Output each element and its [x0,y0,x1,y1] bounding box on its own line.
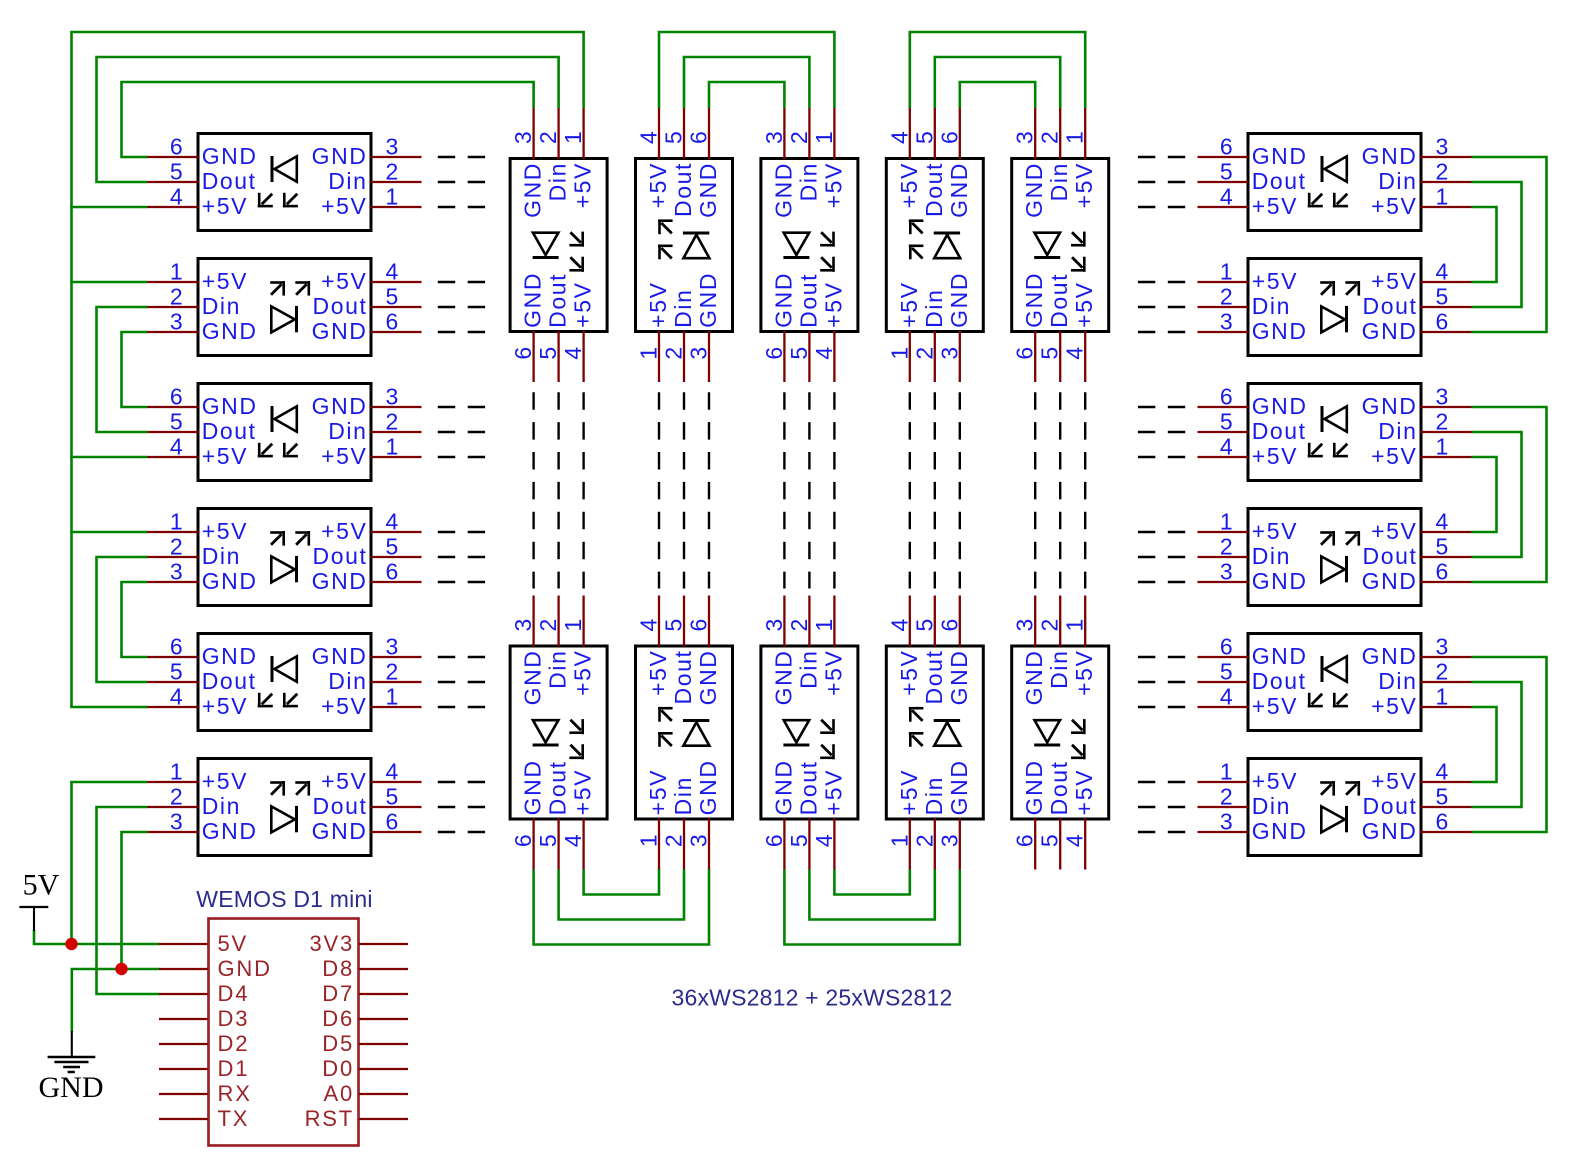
wire +5V branches to left box pins [70,207,147,707]
svg-text:D3: D3 [218,1006,250,1031]
svg-text:D5: D5 [322,1031,354,1056]
WS2812 LED D5 (left column, boxA) [148,634,422,731]
wire right pair 1: +5V pin1-pin4 [1472,207,1497,282]
svg-text:D2: D2 [218,1031,250,1056]
WS2812 LED D3 (left column, boxA) [148,384,422,481]
WEMOS pin D3 (left) [159,1006,249,1031]
WS2812 LED D11 (middle top, col 5, boxA rotated) [1012,108,1109,382]
WS2812 LED D13 (middle bottom, col 2, boxB rotated) [636,596,733,870]
svg-text:RST: RST [305,1106,354,1131]
WS2812 LED D20 (right column, boxB) [1198,509,1472,606]
wire 5V symbol to WEMOS 5V pin [34,930,159,944]
svg-text:D7: D7 [322,981,354,1006]
svg-text:D8: D8 [322,956,354,981]
WS2812 LED D19 (right column, boxA) [1198,384,1472,481]
WEMOS pin D2 (left) [159,1031,249,1056]
WS2812 LED D1 (left column, boxA) [148,134,422,231]
WS2812 LED D2 (left column, boxB) [148,259,422,356]
WS2812 LED D12 (middle bottom, col 1, boxA rotated) [510,596,607,870]
svg-text:D4: D4 [218,981,250,1006]
wire GND: D1 GND up to col1 pin3 (GND) [122,82,534,157]
WS2812 LED D21 (right column, boxA) [1198,634,1472,731]
WS2812 LED D9 (middle top, col 3, boxA rotated) [761,108,858,382]
wire U-loop top inner (D10/D11) [960,82,1035,108]
WEMOS pin TX (left) [159,1106,249,1131]
wire right pair 3: data pin2-pin5 [1472,682,1522,807]
wire data: D6 Din from WEMOS D4 pin [97,807,160,994]
WEMOS D1 mini U1 body [209,919,359,1146]
wire right pair 2: data pin2-pin5 [1472,432,1522,557]
WS2812 LED D14 (middle bottom, col 3, boxA rotated) [761,596,858,870]
WEMOS pin D5 (right) [322,1031,408,1056]
wire U-loop bottom inner (D12/D13) [584,870,659,895]
WEMOS pin D6 (right) [322,1006,408,1031]
WEMOS pin RX (left) [159,1081,252,1106]
WEMOS pin RST (right) [305,1106,408,1131]
junction dot +5V net [65,938,77,950]
WS2812 LED D15 (middle bottom, col 4, boxB rotated) [886,596,983,870]
WEMOS pin D8 (right) [322,956,408,981]
wire U-loop bottom middle (D12/D13) [559,870,684,920]
wire right pair 3: +5V pin1-pin4 [1472,707,1497,782]
wire right pair 1: data pin2-pin5 [1472,182,1522,307]
wire U-loop top middle (D10/D11) [935,57,1060,108]
svg-text:3V3: 3V3 [309,931,354,956]
WS2812 LED D10 (middle top, col 4, boxB rotated) [886,108,983,382]
WS2812 LED D8 (middle top, col 2, boxB rotated) [636,108,733,382]
wire U-loop bottom outer (D14/D15) [784,870,959,945]
wire GND: D6 GND down to GND junction [122,832,148,969]
svg-text:D1: D1 [218,1056,250,1081]
svg-text:A0: A0 [323,1081,354,1106]
WEMOS pin A0 (right) [323,1081,408,1106]
GND ground symbol [39,1031,104,1104]
wire right pair 2: +5V pin1-pin4 [1472,457,1497,532]
dashed continuation, left of right column boxes [1138,157,1186,832]
wire GND: D4 GND to D5 GND [122,582,148,657]
WEMOS pin D0 (right) [322,1056,408,1081]
svg-text:5V: 5V [218,931,249,956]
wire U-loop bottom outer (D12/D13) [534,870,709,945]
junction dot GND net [115,963,127,975]
WS2812 LED D22 (right column, boxB) [1198,759,1472,856]
svg-text:WEMOS D1 mini: WEMOS D1 mini [196,886,372,912]
wire GND row to GND symbol [72,969,159,1032]
WEMOS pin D7 (right) [322,981,408,1006]
wire data: D2 Din to D3 Dout [97,307,148,432]
wire right pair 1: GND pin3-pin6 [1472,157,1547,332]
wire data: D1 Dout up to col1 pin2 (Din) [97,57,559,182]
WEMOS pin 5V (left) [159,931,248,956]
dashed continuation, right of left column boxes [438,157,485,832]
svg-text:RX: RX [218,1081,252,1106]
wire data: D4 Din to D5 Dout [97,557,148,682]
WS2812 LED D16 (middle bottom, col 5, boxA rotated) [1012,596,1109,870]
WEMOS pin D1 (left) [159,1056,249,1081]
svg-text:TX: TX [218,1106,250,1131]
WS2812 LED D4 (left column, boxB) [148,509,422,606]
svg-text:GND: GND [39,1071,104,1104]
WS2812 LED D17 (right column, boxA) [1198,134,1472,231]
wire +5V from D16 pin1 down to 5V junction [72,782,148,944]
WS2812 LED D6 (left column, boxB) [148,759,422,856]
wire right pair 2: GND pin3-pin6 [1472,407,1547,582]
svg-text:36xWS2812 + 25xWS2812: 36xWS2812 + 25xWS2812 [671,985,952,1011]
wire U-loop bottom middle (D14/D15) [809,870,934,920]
WEMOS pin 3V3 (right) [309,931,408,956]
dashed continuation, middle columns vertical [534,392,1086,588]
wire U-loop top outer (D8/D9) [659,32,834,108]
wire GND: D2 GND to D3 GND [122,332,148,407]
wire +5V bus: left boxes to top wire into col1 pin1 [72,32,584,707]
svg-text:5V: 5V [23,869,60,902]
svg-text:D0: D0 [322,1056,354,1081]
svg-text:D6: D6 [322,1006,354,1031]
WS2812 LED D18 (right column, boxB) [1198,259,1472,356]
wire U-loop top middle (D8/D9) [684,57,809,108]
WEMOS pin D4 (left) [159,981,249,1006]
WS2812 LED D7 (middle top, col 1, boxA rotated) [510,108,607,382]
5V power symbol [19,869,59,931]
wire right pair 3: GND pin3-pin6 [1472,657,1547,832]
wire U-loop bottom inner (D14/D15) [834,870,909,895]
wire U-loop top inner (D8/D9) [709,82,784,108]
WEMOS pin GND (left) [159,956,272,981]
wire U-loop top outer (D10/D11) [910,32,1085,108]
svg-text:GND: GND [218,956,272,981]
